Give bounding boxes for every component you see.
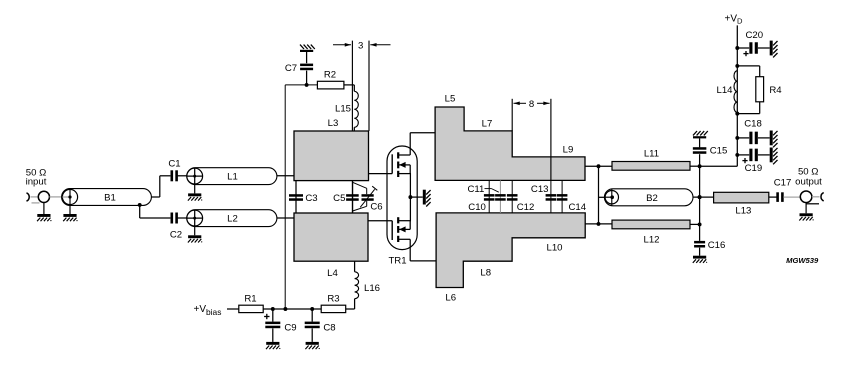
svg-text:MGW539: MGW539 <box>786 256 819 265</box>
svg-text:C19: C19 <box>745 163 763 174</box>
svg-text:L1: L1 <box>227 172 238 183</box>
svg-text:R1: R1 <box>244 293 256 304</box>
svg-text:C8: C8 <box>323 323 335 334</box>
svg-text:C17: C17 <box>774 177 792 188</box>
svg-text:C7: C7 <box>285 63 297 74</box>
svg-text:C2: C2 <box>170 230 182 241</box>
svg-text:L16: L16 <box>364 283 380 294</box>
svg-text:L5: L5 <box>445 94 456 105</box>
svg-text:B1: B1 <box>104 193 116 204</box>
svg-text:input: input <box>26 177 47 188</box>
svg-text:C20: C20 <box>745 30 763 41</box>
svg-text:L9: L9 <box>563 144 574 155</box>
svg-text:output: output <box>795 177 822 188</box>
svg-text:B2: B2 <box>646 193 658 204</box>
svg-text:L14: L14 <box>716 85 733 96</box>
svg-text:C12: C12 <box>517 202 535 213</box>
svg-text:L7: L7 <box>482 118 493 129</box>
svg-text:L15: L15 <box>335 104 351 115</box>
svg-text:C6: C6 <box>370 202 382 213</box>
svg-text:TR1: TR1 <box>388 256 406 267</box>
svg-text:8: 8 <box>529 99 534 110</box>
svg-text:L13: L13 <box>735 206 751 217</box>
svg-text:L8: L8 <box>480 268 491 279</box>
svg-text:C14: C14 <box>568 202 586 213</box>
svg-text:R3: R3 <box>327 293 339 304</box>
svg-text:C10: C10 <box>468 202 486 213</box>
svg-text:L2: L2 <box>227 214 238 225</box>
svg-text:L11: L11 <box>644 149 659 160</box>
svg-text:3: 3 <box>358 40 363 51</box>
svg-text:L6: L6 <box>445 293 456 304</box>
svg-text:C3: C3 <box>305 193 317 204</box>
svg-text:C13: C13 <box>531 184 549 195</box>
svg-text:C15: C15 <box>710 146 728 157</box>
svg-text:+Vbias: +Vbias <box>194 304 222 317</box>
svg-text:L10: L10 <box>546 243 562 254</box>
svg-text:L3: L3 <box>328 118 339 129</box>
svg-text:C18: C18 <box>744 118 762 129</box>
svg-text:R4: R4 <box>769 85 782 96</box>
svg-text:L4: L4 <box>327 268 338 279</box>
svg-text:C1: C1 <box>168 159 180 170</box>
svg-text:C5: C5 <box>333 193 345 204</box>
svg-text:R2: R2 <box>324 70 336 81</box>
svg-text:L12: L12 <box>643 235 659 246</box>
svg-text:C16: C16 <box>708 240 726 251</box>
svg-text:C9: C9 <box>284 323 296 334</box>
svg-text:C11: C11 <box>467 184 484 195</box>
